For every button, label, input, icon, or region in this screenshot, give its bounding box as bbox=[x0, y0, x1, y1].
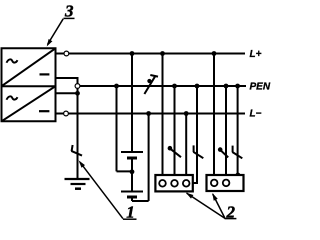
svg-text:3: 3 bbox=[64, 1, 74, 20]
svg-text:1: 1 bbox=[126, 203, 135, 222]
svg-text:2: 2 bbox=[226, 203, 236, 222]
svg-text:L−: L− bbox=[250, 109, 262, 120]
svg-text:PEN: PEN bbox=[250, 82, 271, 93]
svg-text:L+: L+ bbox=[250, 49, 262, 60]
